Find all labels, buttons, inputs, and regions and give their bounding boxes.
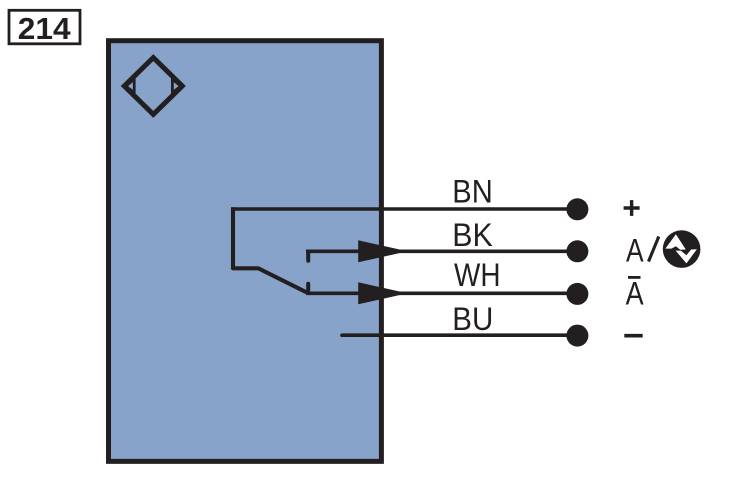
proximity sensor symbol: right triangle [172, 79, 180, 92]
arrowhead on BK wire [358, 240, 407, 262]
proximity sensor symbol: left chord [133, 75, 136, 97]
proximity sensor symbol: left triangle [126, 79, 134, 92]
wire BN (+ supply) [231, 207, 577, 211]
wire BK (output A) [306, 250, 577, 254]
figure number box 214 [9, 10, 80, 44]
sensor body (blue box) [109, 41, 382, 462]
terminal dot BN [566, 198, 588, 220]
svg-text:BN: BN [452, 174, 493, 210]
terminal dot BK [566, 240, 588, 262]
wire WH (output A-bar) [306, 291, 577, 295]
contact stub for WH [306, 284, 310, 293]
terminal dot BU [566, 325, 588, 347]
macron over A [628, 276, 641, 279]
svg-text:WH: WH [454, 257, 501, 293]
svg-text:214: 214 [18, 11, 72, 46]
wire BU (- supply) [342, 333, 577, 337]
terminal dot WH [566, 283, 588, 305]
svg-text:BU: BU [452, 301, 493, 337]
slash after A [649, 237, 659, 262]
svg-text:A: A [626, 275, 645, 311]
proximity sensor symbol: right chord [171, 75, 174, 97]
contact stub for BK [306, 252, 310, 261]
svg-text:BK: BK [452, 217, 493, 253]
wire: switch common branch (vertical + stub + switch arm) [233, 207, 307, 292]
svg-text:A: A [626, 232, 644, 268]
plus sign (+ terminal) [624, 200, 640, 216]
minus sign (- terminal) [624, 334, 642, 338]
proximity sensor symbol: diamond [124, 58, 182, 115]
switching-output icon (circle with zigzag arrows) [663, 230, 701, 268]
arrowhead on WH wire [358, 282, 407, 304]
